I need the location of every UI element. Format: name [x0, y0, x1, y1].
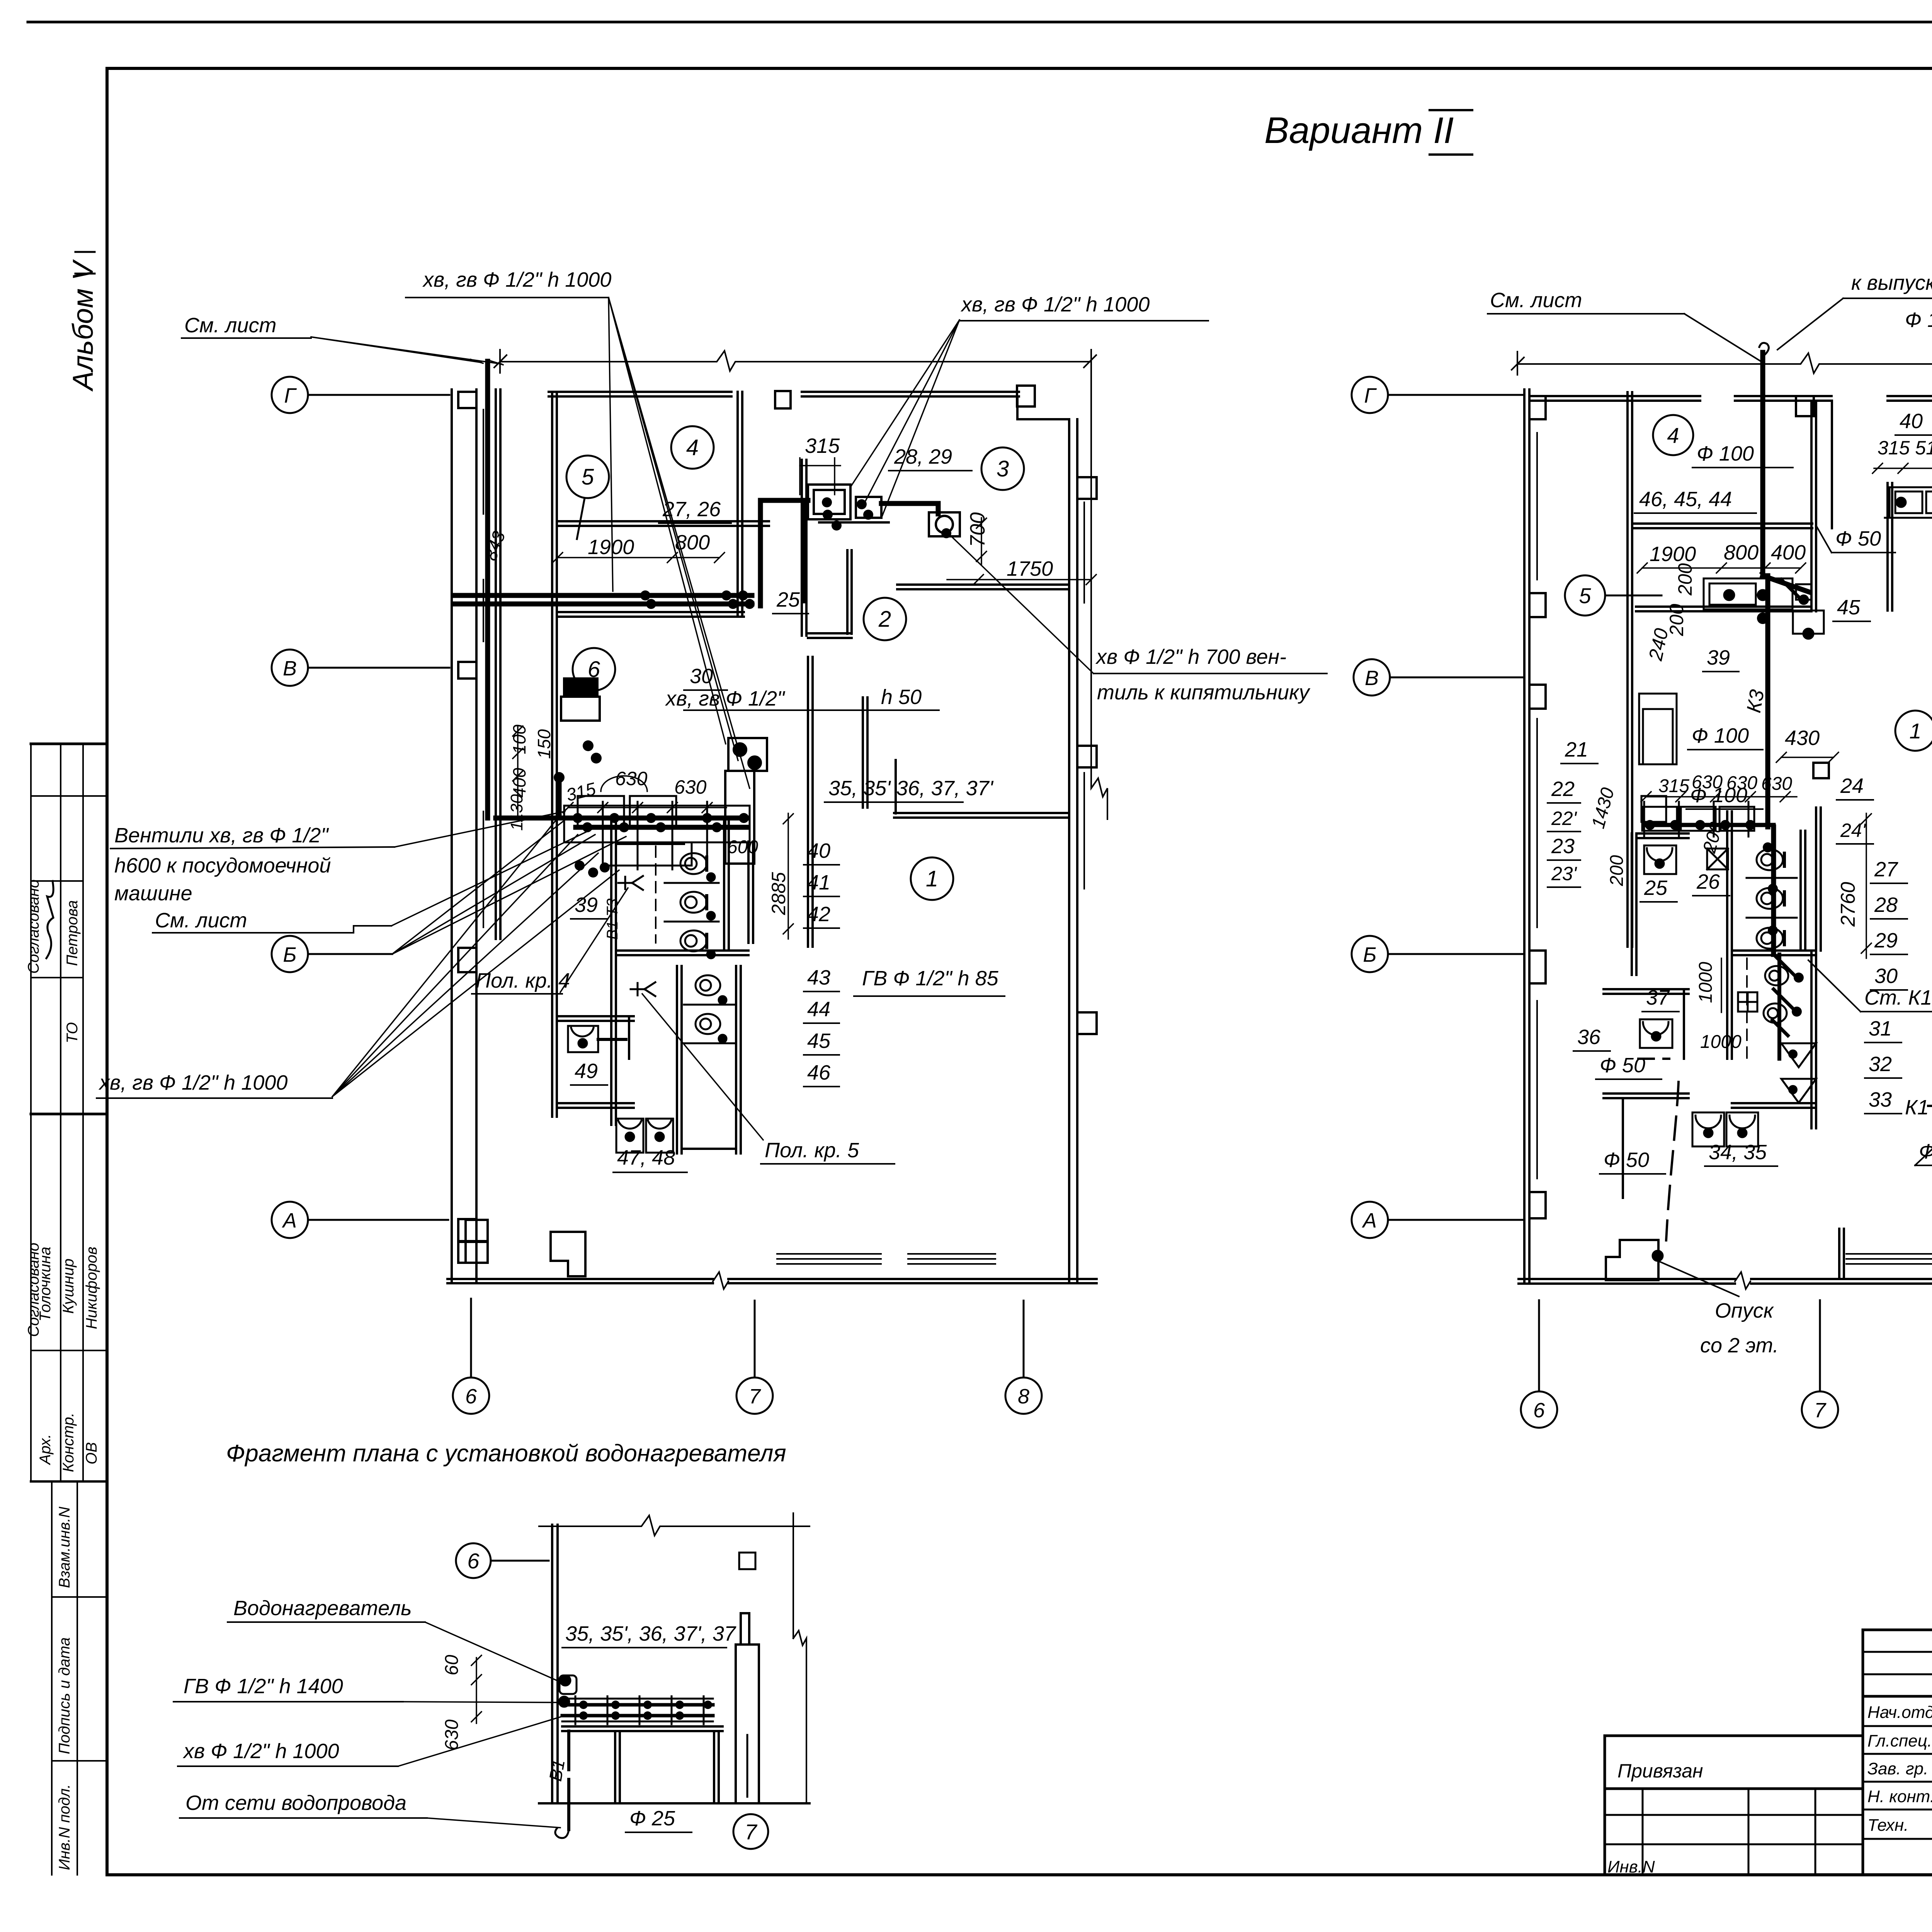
- svg-text:2885: 2885: [768, 872, 789, 915]
- toilets upper stalls: [568, 853, 734, 1153]
- svg-text:700: 700: [966, 512, 989, 547]
- manifold row in stalls: [1644, 823, 1774, 827]
- svg-text:200: 200: [1674, 563, 1696, 596]
- svg-text:Констр.: Констр.: [60, 1413, 77, 1472]
- svg-text:32: 32: [1869, 1053, 1892, 1076]
- svg-text:Пол. кр. 5: Пол. кр. 5: [765, 1139, 859, 1162]
- svg-text:Толочкина: Толочкина: [37, 1247, 54, 1321]
- svg-text:33: 33: [1869, 1088, 1892, 1111]
- svg-text:47, 48: 47, 48: [617, 1146, 675, 1169]
- urinals: [1781, 1043, 1816, 1067]
- top wall: [549, 391, 731, 393]
- svg-text:со 2 эт.: со 2 эт.: [1700, 1334, 1779, 1357]
- svg-text:См. лист: См. лист: [155, 909, 247, 932]
- svg-text:Ф 100: Ф 100: [1692, 724, 1749, 747]
- svg-text:30: 30: [690, 665, 713, 688]
- svg-text:6: 6: [588, 657, 600, 682]
- svg-text:630: 630: [674, 776, 707, 798]
- svg-text:А: А: [1362, 1209, 1377, 1232]
- svg-text:А: А: [282, 1209, 297, 1232]
- svg-text:1430: 1430: [1588, 786, 1618, 831]
- water heater: [560, 1675, 577, 1694]
- svg-text:Водонагреватель: Водонагреватель: [233, 1597, 412, 1620]
- window sills bottom: [1846, 1253, 1932, 1255]
- svg-text:Фрагмент плана с установкой во: Фрагмент плана с установкой водонагреват…: [226, 1440, 786, 1467]
- toilet small lower: [1765, 966, 1788, 985]
- svg-text:40: 40: [1900, 410, 1923, 433]
- square fixture: [1738, 992, 1757, 1012]
- svg-text:ГВ Ф 1/2" h 1400: ГВ Ф 1/2" h 1400: [184, 1675, 343, 1698]
- signature rows: [1863, 1725, 1932, 1727]
- svg-text:5: 5: [1579, 583, 1591, 608]
- cabinet room 6: [561, 679, 600, 721]
- svg-text:В1: В1: [545, 1758, 569, 1782]
- outer left wall: [447, 386, 1097, 1289]
- svg-text:Опуск: Опуск: [1715, 1299, 1774, 1322]
- room number circles left plan: [566, 426, 1024, 900]
- svg-text:Ф 100: Ф 100: [1905, 308, 1932, 332]
- svg-text:хв, гв Ф 1/2" h 1000: хв, гв Ф 1/2" h 1000: [98, 1071, 287, 1094]
- sheet top edge line: [28, 21, 1932, 24]
- svg-text:23: 23: [1551, 835, 1575, 858]
- svg-text:к выпуску К3-3: к выпуску К3-3: [1851, 271, 1932, 294]
- svg-text:См. лист: См. лист: [1490, 289, 1582, 312]
- svg-text:1: 1: [1909, 719, 1921, 743]
- interior walls: [551, 392, 553, 1117]
- svg-text:Ст. К1-5: Ст. К1-5: [1864, 986, 1932, 1009]
- svg-text:630: 630: [442, 1719, 462, 1750]
- axis-8 extension line: [1091, 350, 1107, 819]
- svg-text:21: 21: [1565, 738, 1588, 761]
- svg-text:См. лист: См. лист: [184, 314, 277, 337]
- svg-text:49: 49: [575, 1060, 598, 1083]
- svg-text:28, 29: 28, 29: [894, 445, 952, 468]
- B1 pipe: [567, 1731, 570, 1754]
- svg-text:39: 39: [1707, 646, 1730, 669]
- svg-text:Подпись и дата: Подпись и дата: [56, 1637, 73, 1754]
- table: [562, 1725, 723, 1728]
- fixture group room 28/29: [808, 485, 960, 536]
- svg-text:240: 240: [1645, 626, 1672, 663]
- svg-text:Гл.спец.: Гл.спец.: [1867, 1731, 1932, 1750]
- svg-text:1750: 1750: [1007, 557, 1053, 580]
- svg-text:800: 800: [675, 531, 710, 554]
- interior verticals: [1626, 392, 1629, 947]
- svg-text:150: 150: [534, 729, 554, 759]
- svg-text:машине: машине: [114, 882, 192, 905]
- svg-text:Инв.N: Инв.N: [1607, 1857, 1655, 1876]
- svg-text:7: 7: [1814, 1399, 1827, 1422]
- K3 riser pipe: [1759, 343, 1809, 1059]
- svg-text:К3: К3: [1743, 688, 1769, 714]
- svg-text:630: 630: [1761, 774, 1792, 794]
- cylinder: [736, 1645, 759, 1803]
- svg-text:315: 315: [564, 779, 598, 805]
- corner square corridor: [1813, 763, 1829, 778]
- svg-text:27, 26: 27, 26: [662, 498, 721, 521]
- svg-text:Согласовано: Согласовано: [25, 879, 42, 974]
- svg-text:30: 30: [1874, 964, 1898, 988]
- svg-text:ГВ Ф 1/2" h 85: ГВ Ф 1/2" h 85: [862, 967, 999, 990]
- taps: [618, 876, 643, 890]
- svg-text:Вентили хв, гв Ф 1/2": Вентили хв, гв Ф 1/2": [114, 824, 329, 847]
- pipes upper: [454, 361, 938, 818]
- sanitary block: [1631, 833, 1633, 975]
- svg-text:25: 25: [776, 588, 800, 611]
- svg-text:Альбом V: Альбом V: [67, 259, 99, 392]
- fixtures center room5: [1704, 578, 1793, 609]
- right plan texts: [1488, 271, 1932, 887]
- svg-text:24: 24: [1840, 774, 1864, 798]
- svg-text:37: 37: [1646, 986, 1670, 1009]
- svg-text:39: 39: [575, 893, 598, 917]
- svg-text:1130: 1130: [507, 794, 526, 831]
- svg-text:315: 315: [805, 434, 840, 457]
- tall cabinet left: [1639, 694, 1677, 764]
- svg-text:В: В: [1365, 667, 1379, 690]
- svg-text:Вариант II: Вариант II: [1264, 110, 1454, 151]
- stamp rotated texts: [25, 879, 100, 1870]
- svg-text:44: 44: [807, 998, 830, 1021]
- outline: [1863, 1629, 1932, 1631]
- washbasin upper left stall: [1639, 487, 1932, 1146]
- svg-text:Ф 50: Ф 50: [1835, 527, 1881, 550]
- f50 dashed drop: [1666, 1082, 1679, 1240]
- svg-text:45: 45: [1837, 596, 1861, 619]
- svg-text:Ф 50: Ф 50: [1604, 1148, 1649, 1172]
- walls: [1519, 386, 1932, 1289]
- bottom wall with break: [447, 1278, 1097, 1280]
- washbasins 47/48 & 49: [616, 1119, 643, 1153]
- svg-text:1900: 1900: [588, 536, 634, 559]
- svg-text:2: 2: [878, 607, 891, 632]
- top dimension line with break: [1512, 352, 1932, 1094]
- misc fixtures bottom-left: [466, 1220, 488, 1241]
- svg-text:ОВ: ОВ: [83, 1442, 100, 1464]
- svg-text:2760: 2760: [1837, 882, 1859, 927]
- svg-text:5: 5: [582, 464, 594, 490]
- svg-text:Техн.: Техн.: [1867, 1816, 1908, 1835]
- room circles right plan: [1565, 415, 1932, 751]
- svg-text:Ф 100: Ф 100: [1697, 442, 1754, 465]
- washbasins 34,35: [1692, 1112, 1724, 1146]
- svg-text:31: 31: [1869, 1017, 1892, 1040]
- svg-text:6: 6: [1533, 1399, 1545, 1422]
- svg-text:40: 40: [807, 839, 830, 862]
- svg-text:6: 6: [467, 1549, 480, 1573]
- svg-text:Инв.N подл.: Инв.N подл.: [56, 1784, 73, 1870]
- svg-text:Никифоров: Никифоров: [83, 1247, 100, 1329]
- svg-text:хв, гв Ф 1/2" h 1000: хв, гв Ф 1/2" h 1000: [960, 293, 1150, 316]
- svg-text:Зав. гр.: Зав. гр.: [1867, 1759, 1928, 1778]
- svg-text:хв Ф 1/2" h 1000: хв Ф 1/2" h 1000: [182, 1740, 339, 1763]
- svg-text:тиль к кипятильнику: тиль к кипятильнику: [1097, 681, 1311, 704]
- svg-text:h600 к посудомоечной: h600 к посудомоечной: [114, 854, 331, 877]
- svg-text:Б: Б: [283, 943, 296, 966]
- svg-text:315 515: 315 515: [1878, 437, 1932, 459]
- svg-text:46, 45, 44: 46, 45, 44: [1639, 488, 1732, 511]
- svg-text:7: 7: [749, 1385, 761, 1408]
- toilets right plan: [1757, 849, 1783, 870]
- svg-text:28: 28: [1874, 893, 1898, 917]
- svg-text:В: В: [283, 657, 297, 680]
- dim ticks fragment: [471, 1655, 481, 1723]
- svg-text:Кушнир: Кушнир: [60, 1259, 77, 1314]
- svg-text:29: 29: [1874, 929, 1898, 952]
- svg-text:800: 800: [1724, 541, 1759, 564]
- top wall: [1530, 395, 1700, 397]
- svg-text:200: 200: [1607, 855, 1627, 886]
- axis circles: [272, 377, 1042, 1414]
- axis circles: [1352, 377, 1932, 1430]
- svg-text:4: 4: [686, 435, 699, 460]
- top dimension line with break: [494, 350, 1107, 819]
- dishwash manifold: [496, 777, 746, 827]
- svg-text:41: 41: [807, 871, 830, 894]
- svg-text:22': 22': [1551, 808, 1577, 829]
- svg-text:ТО: ТО: [64, 1022, 81, 1043]
- lower number stacks / labels right plan: [1573, 772, 1932, 1357]
- svg-text:Петрова: Петрова: [64, 900, 81, 966]
- left stamp tables: [31, 744, 107, 1875]
- svg-text:От сети водопровода: От сети водопровода: [185, 1791, 406, 1815]
- svg-text:27: 27: [1874, 858, 1898, 881]
- K1 line and drop: [1606, 1059, 1932, 1325]
- svg-text:843: 843: [480, 528, 509, 563]
- fixtures room 3: [1889, 487, 1932, 518]
- svg-text:хв Ф 1/2" h 700 вен-: хв Ф 1/2" h 700 вен-: [1095, 645, 1286, 668]
- svg-text:25: 25: [1644, 876, 1668, 900]
- svg-text:36: 36: [1577, 1026, 1601, 1049]
- svg-text:хв, гв Ф 1/2": хв, гв Ф 1/2": [665, 687, 786, 710]
- svg-text:1000: 1000: [1696, 962, 1716, 1003]
- svg-text:34, 35: 34, 35: [1709, 1141, 1767, 1164]
- svg-text:630: 630: [1692, 772, 1723, 793]
- svg-text:1000: 1000: [1700, 1032, 1742, 1052]
- manifold rails: [562, 1698, 713, 1700]
- svg-text:Г: Г: [284, 384, 297, 407]
- svg-text:К1: К1: [1905, 1096, 1929, 1119]
- toilets lower stalls: [696, 975, 720, 995]
- svg-text:Ф 25: Ф 25: [629, 1807, 675, 1830]
- svg-text:4: 4: [1667, 423, 1679, 447]
- svg-text:630: 630: [615, 768, 648, 789]
- svg-text:22: 22: [1551, 777, 1575, 801]
- svg-text:46: 46: [807, 1061, 831, 1084]
- svg-text:35, 35', 36, 37', 37: 35, 35', 36, 37', 37: [565, 1622, 736, 1645]
- svg-text:Пол. кр. 4: Пол. кр. 4: [476, 969, 570, 992]
- svg-text:630: 630: [1726, 773, 1757, 793]
- lower-left fixture: [1606, 1240, 1658, 1280]
- svg-text:8: 8: [1018, 1385, 1029, 1408]
- svg-text:Б: Б: [1363, 943, 1376, 966]
- sanitary block walls: [610, 819, 612, 1125]
- right wall: [1068, 419, 1070, 1283]
- svg-text:h 50: h 50: [881, 685, 922, 709]
- svg-text:60: 60: [442, 1655, 462, 1675]
- svg-text:Привязан: Привязан: [1617, 1760, 1703, 1782]
- svg-text:хв, гв Ф 1/2" h 1000: хв, гв Ф 1/2" h 1000: [422, 268, 611, 291]
- svg-text:Н. конт.: Н. конт.: [1867, 1787, 1932, 1806]
- svg-text:400: 400: [509, 768, 529, 798]
- bottom wall with break: [1519, 1278, 1932, 1280]
- svg-text:42: 42: [807, 903, 830, 926]
- svg-text:23': 23': [1551, 863, 1577, 884]
- svg-text:1: 1: [926, 866, 938, 891]
- svg-text:Арх.: Арх.: [37, 1434, 54, 1465]
- svg-text:6: 6: [465, 1385, 477, 1408]
- svg-text:7: 7: [745, 1820, 757, 1844]
- svg-text:В1 Т3: В1 Т3: [604, 898, 621, 940]
- boiler: [725, 738, 767, 864]
- left attach part: [1605, 1735, 1863, 1737]
- basin room 36: [1640, 1019, 1672, 1048]
- left plan texts: [97, 268, 1327, 1172]
- svg-text:45: 45: [807, 1029, 831, 1053]
- svg-text:600: 600: [727, 837, 758, 857]
- svg-text:1900: 1900: [1650, 543, 1696, 566]
- svg-text:Ф 50: Ф 50: [1600, 1054, 1645, 1077]
- svg-text:430: 430: [1785, 726, 1820, 750]
- svg-text:35, 35' 36, 37, 37': 35, 35' 36, 37, 37': [828, 777, 994, 800]
- window sills bottom: [777, 1253, 881, 1255]
- svg-text:3: 3: [997, 456, 1009, 481]
- svg-text:43: 43: [807, 966, 830, 989]
- svg-text:Г: Г: [1364, 384, 1377, 407]
- svg-text:400: 400: [1771, 541, 1806, 564]
- svg-text:Нач.отд.: Нач.отд.: [1867, 1703, 1932, 1722]
- svg-text:26: 26: [1696, 870, 1720, 893]
- small dim lines left plan: [513, 458, 1096, 939]
- rooms 39/49 walls: [557, 1015, 634, 1017]
- svg-text:Взам.инв.N: Взам.инв.N: [56, 1507, 73, 1588]
- small revision rows top: [1863, 1651, 1932, 1653]
- left plan leader fans: [311, 298, 1094, 1140]
